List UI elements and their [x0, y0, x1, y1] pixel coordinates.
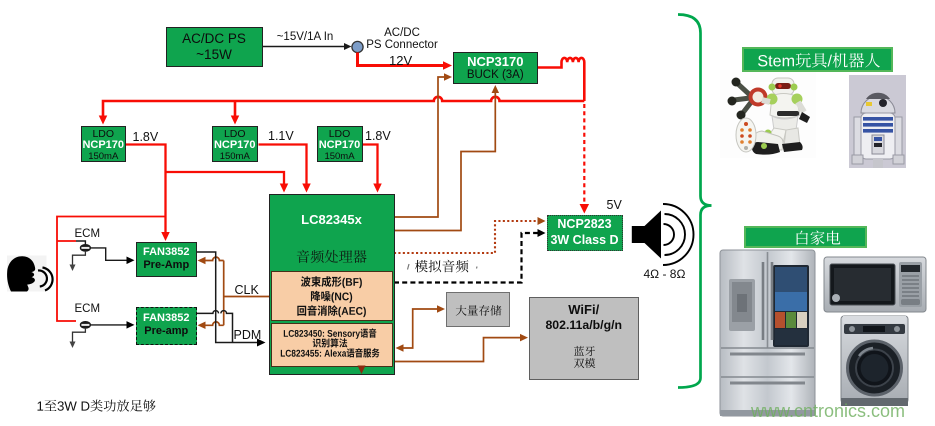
label: banner Stem玩具/机器人 [758, 53, 880, 68]
talking person icon [7, 256, 53, 292]
wire: brown from LC82345x to WiFi module [394, 334, 528, 362]
wire: LDO2 1.1V output to LC82345x [259, 145, 311, 193]
banner: Stem toys / robots [742, 47, 894, 72]
block: AC/DC power supply [166, 27, 263, 67]
label: 蓝牙 [574, 346, 595, 356]
label: LC823450 Sensory 语音 [284, 328, 376, 338]
wire: I2S dashed black from LC82345x to NCP2823 [394, 229, 546, 283]
label: ECM #1 [75, 228, 101, 240]
banner: white goods 白家电 [744, 226, 867, 249]
label: 模拟音频 (analog audio) [415, 260, 469, 273]
connector J1 (AC/DC PS connector circle) [352, 41, 363, 52]
fridge image [720, 250, 815, 416]
wire: rail drop to LDO NCP170 #2 [231, 101, 240, 125]
label: 12V [389, 53, 412, 68]
wire: LDO1 1.8V output to LC82345x and FAN3852 supply [126, 145, 170, 242]
block: NCP2823 class D amplifier [547, 215, 623, 251]
label: 1至3W D类功放足够 [38, 400, 156, 412]
sub-block: LC823450/LC823455 voice services [271, 323, 393, 367]
label: CLK [235, 283, 259, 297]
ground for ECM #2 [70, 328, 86, 348]
microwave image [824, 257, 926, 312]
wire: brown control from LC82345x to NCP3170 input [394, 73, 452, 217]
ECM microphone #1 symbol [76, 241, 135, 264]
speaker icon [632, 204, 694, 265]
wire: CLK brown from LC82345x to both FAN3852 [198, 257, 270, 329]
wire: PDM black from FAN3852 #1 [196, 252, 266, 347]
label: 音频处理器 (audio processor) [297, 250, 367, 263]
ground for ECM #1 [70, 251, 86, 271]
label: 1.8V (LDO3) [365, 129, 391, 143]
wire: 12V from connector to NCP3170 [358, 53, 453, 70]
block: LC82345x audio processor [269, 194, 395, 376]
grouping brace [678, 15, 712, 388]
wire: brown feedback from LC82345x to NCP3170 bottom [394, 85, 499, 231]
label: LC823455 Alexa 语音服务 [281, 348, 380, 357]
wire: 1.8V branch to ECM microphones [57, 217, 166, 322]
wire: brown between LC82345x and mass storage [396, 305, 446, 352]
block: FAN3852 pre-amp #1 [136, 242, 197, 277]
washing machine image [841, 316, 908, 406]
wire: AC/DC PS output to connector [262, 43, 352, 50]
label: 识别算法 [313, 338, 348, 347]
block: mass storage (大量存储) [446, 292, 510, 327]
block: NCP3170 buck regulator [453, 52, 539, 84]
tick marks around analog audio label [408, 264, 478, 270]
wire: analog audio dotted from LC82345x to NCP2823 [394, 217, 546, 253]
label: 4Ω - 8Ω [644, 267, 686, 281]
block: FAN3852 pre-amp #2 [136, 307, 197, 345]
label: AC/DC PS Connector [366, 27, 438, 51]
block: WiFi / bluetooth module [529, 297, 639, 380]
block: LDO NCP170 #2 [212, 126, 259, 163]
label: 5V [607, 198, 622, 212]
arrow out of LC82345x bottom [358, 366, 366, 375]
wire: PDM black from FAN3852 #2 [196, 311, 233, 343]
R2D2 robot image [849, 75, 906, 168]
label: ~15V/1A In [272, 31, 338, 43]
wire: LDO3 1.8V output to LC82345x [363, 145, 382, 193]
label: 回音消除(AEC) [297, 305, 366, 317]
label: 波束成形(BF) [301, 276, 362, 288]
label: 1.8V (LDO1) [133, 130, 159, 144]
label: 大量存储 (mass storage) [456, 305, 502, 316]
label: PDM [234, 328, 262, 342]
wire: 1.8V branch into LC82345x [166, 172, 289, 193]
robot toy image [720, 70, 816, 158]
inductor L1 on NCP3170 output [538, 58, 585, 101]
block: LDO NCP170 #3 [317, 126, 363, 163]
watermark www.cntronics.com [750, 401, 905, 421]
label: banner 白家电 [797, 231, 841, 245]
label: ECM #2 [75, 303, 101, 315]
label: 降噪(NC) [311, 291, 352, 303]
block: LDO NCP170 #1 [81, 126, 127, 163]
ECM microphone #2 symbol [81, 321, 135, 329]
wire: 5V power rail with drop to LDO NCP170 #1 [99, 97, 585, 125]
label: 1.1V (LDO2) [268, 129, 294, 143]
label: 双模 [574, 358, 595, 368]
wire: 5V dashed to NCP2823 [580, 104, 590, 214]
sub-block: beam forming / noise cancel / AEC [271, 271, 393, 321]
